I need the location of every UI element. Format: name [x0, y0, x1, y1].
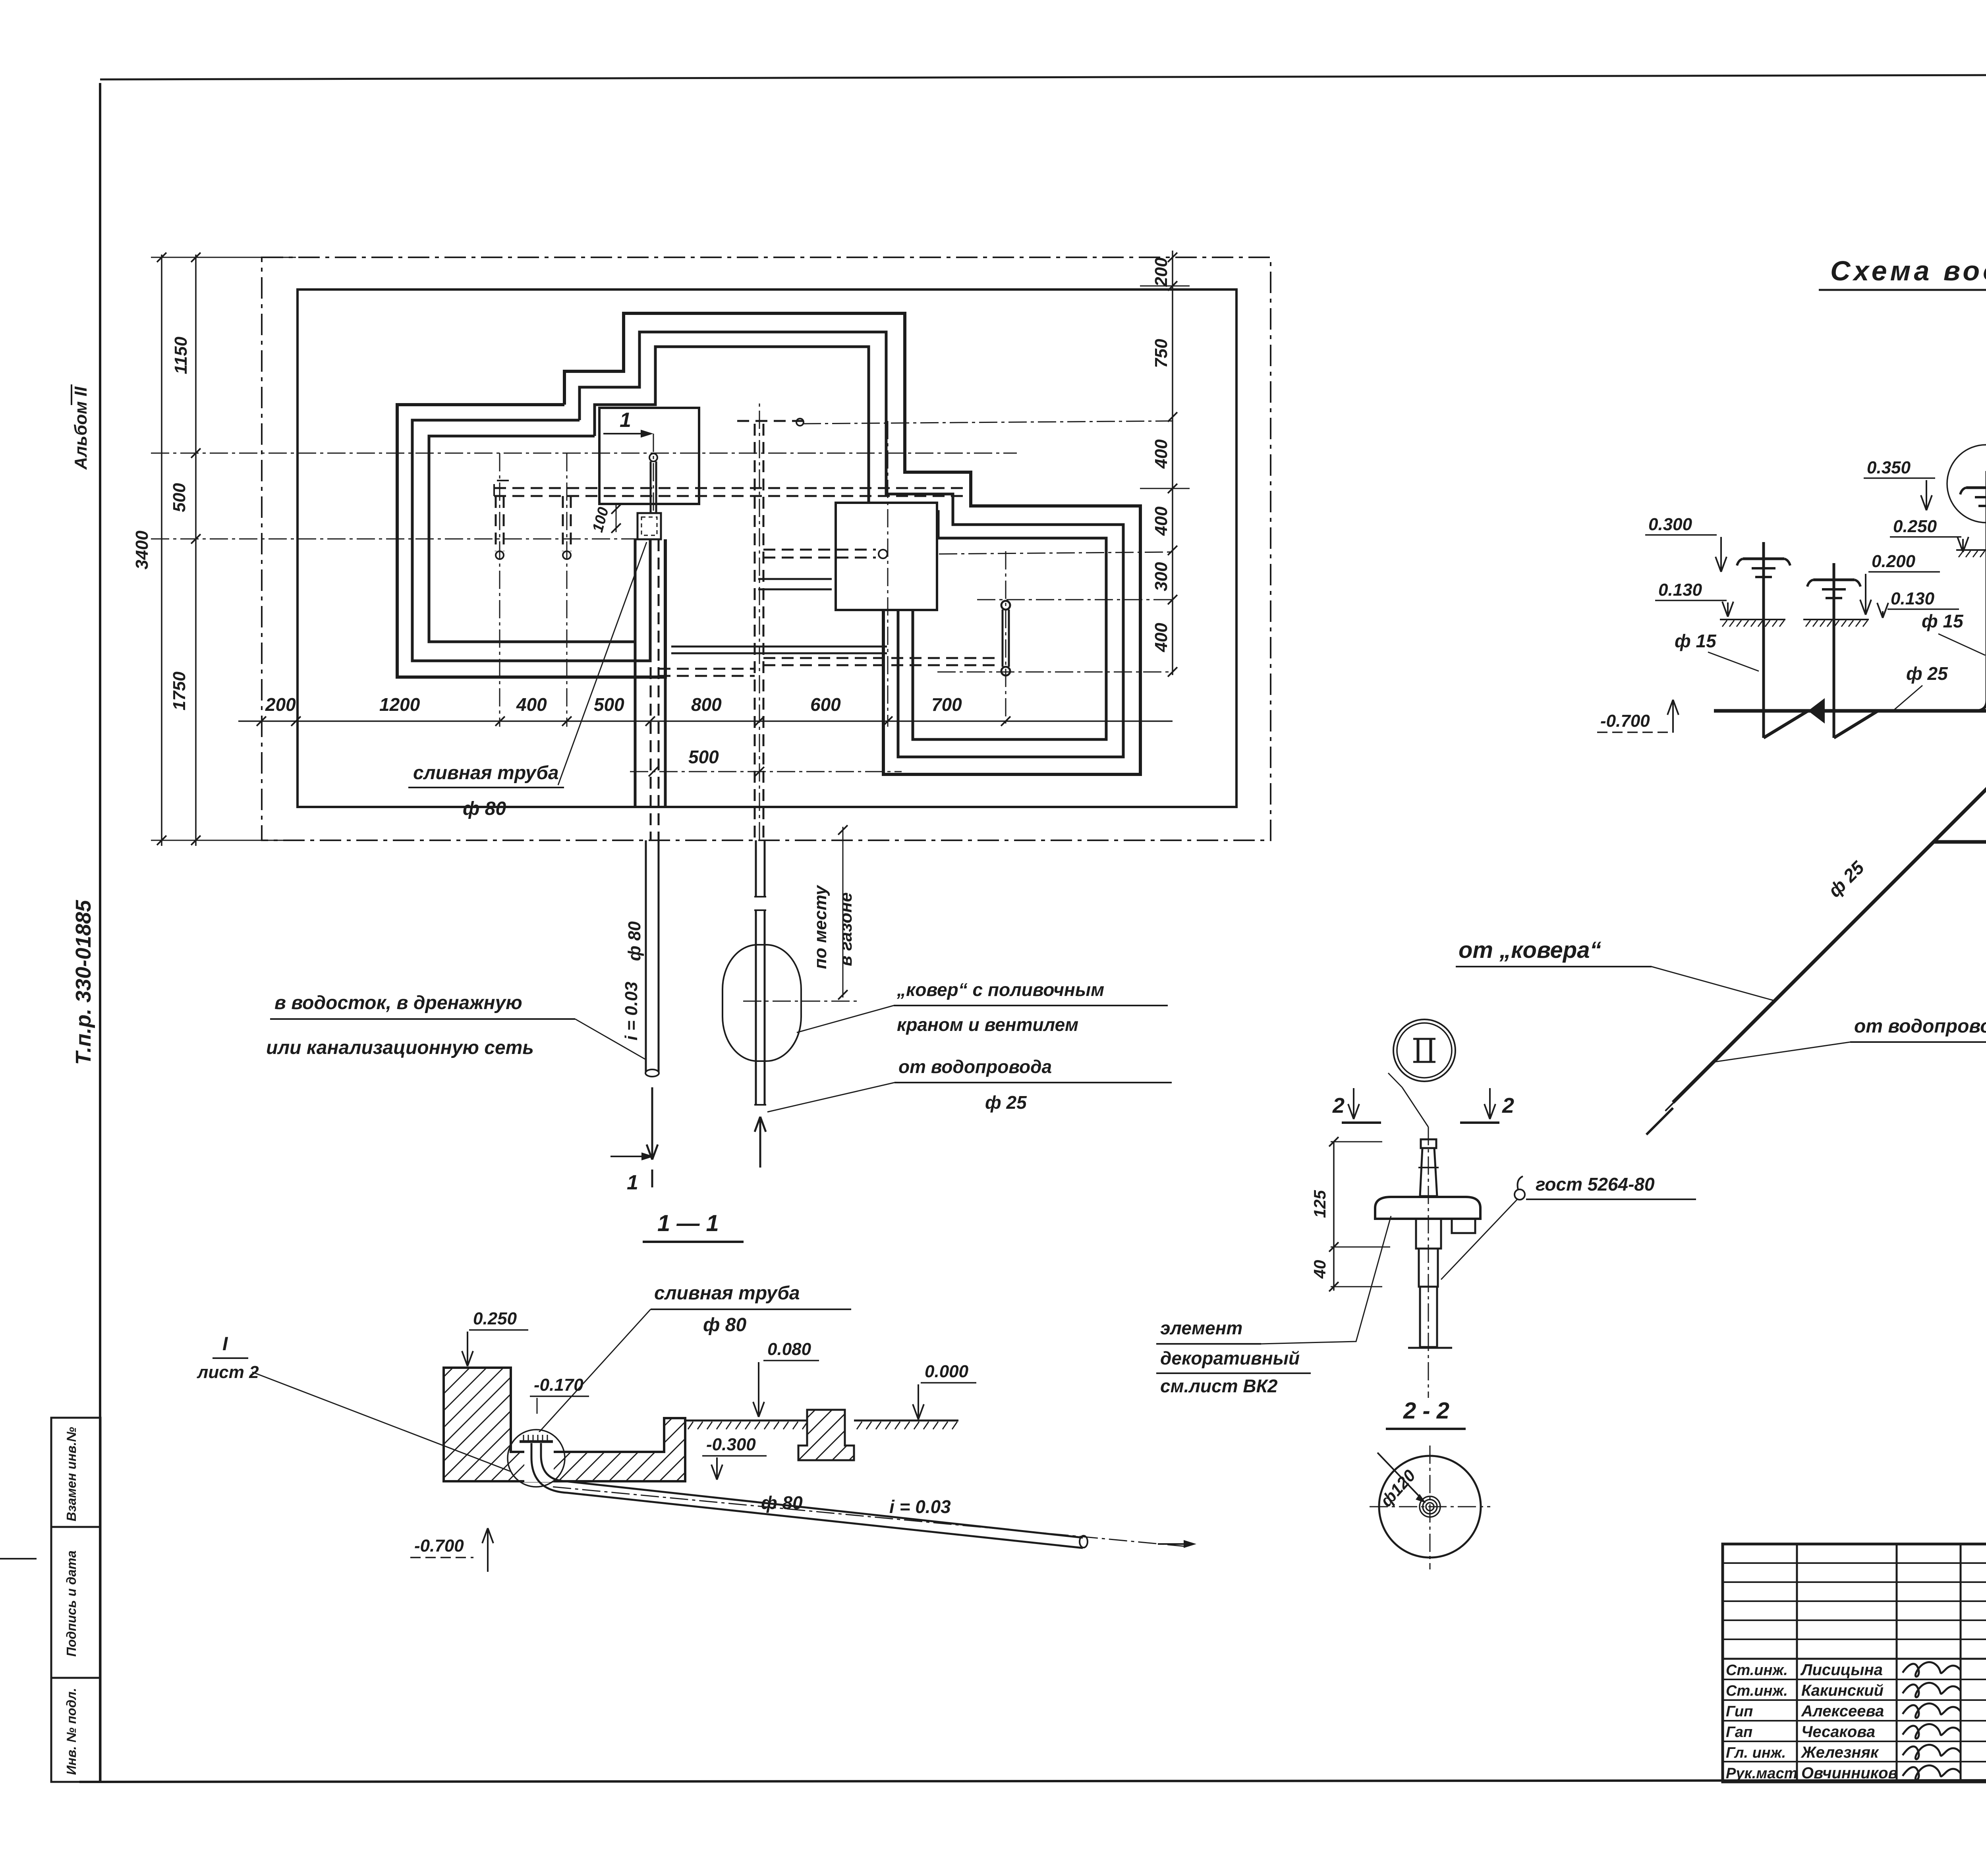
- svg-text:2 - 2: 2 - 2: [1403, 1398, 1449, 1424]
- svg-text:ф 15: ф 15: [1922, 611, 1964, 631]
- svg-text:сливная труба: сливная труба: [654, 1283, 800, 1304]
- svg-text:0.250: 0.250: [1893, 517, 1937, 536]
- svg-text:декоративный: декоративный: [1160, 1348, 1300, 1368]
- svg-text:ф 80: ф 80: [625, 921, 644, 961]
- svg-text:0.000: 0.000: [925, 1362, 969, 1381]
- svg-text:гост 5264-80: гост 5264-80: [1536, 1174, 1655, 1195]
- svg-text:0.300: 0.300: [1648, 515, 1692, 534]
- svg-text:0.200: 0.200: [1872, 552, 1916, 571]
- svg-text:-0.700: -0.700: [1600, 711, 1650, 731]
- svg-text:400: 400: [1151, 506, 1171, 536]
- svg-text:ф 25: ф 25: [985, 1092, 1027, 1113]
- svg-text:-0.170: -0.170: [534, 1375, 583, 1395]
- svg-text:по месту: по месту: [811, 884, 830, 969]
- svg-text:Схема водопровода: Схема водопровода: [1830, 255, 1986, 286]
- svg-text:400: 400: [1151, 439, 1171, 469]
- svg-text:3400: 3400: [132, 531, 152, 569]
- svg-text:от водопровода: от водопровода: [1854, 1016, 1986, 1037]
- svg-text:см.лист ВК2: см.лист ВК2: [1160, 1376, 1278, 1396]
- svg-text:Ст.инж.: Ст.инж.: [1726, 1662, 1788, 1679]
- svg-text:Железняк: Железняк: [1801, 1744, 1879, 1761]
- svg-text:1150: 1150: [171, 336, 191, 374]
- svg-text:600: 600: [810, 694, 841, 715]
- svg-text:i = 0.03: i = 0.03: [889, 1496, 951, 1517]
- svg-text:Альбом II: Альбом II: [71, 386, 91, 470]
- svg-text:0.130: 0.130: [1658, 580, 1702, 600]
- svg-text:1750: 1750: [170, 672, 189, 710]
- svg-text:Какинский: Какинский: [1801, 1682, 1884, 1699]
- svg-text:элемент: элемент: [1160, 1318, 1242, 1338]
- svg-text:Инв. № подл.: Инв. № подл.: [64, 1688, 79, 1775]
- svg-text:Взамен инв.№: Взамен инв.№: [64, 1427, 79, 1521]
- svg-text:i = 0.03: i = 0.03: [622, 982, 641, 1040]
- svg-text:800: 800: [691, 694, 722, 715]
- svg-text:0.130: 0.130: [1891, 589, 1935, 608]
- svg-text:Рук.маст: Рук.маст: [1726, 1765, 1797, 1782]
- svg-text:или канализационную сеть: или канализационную сеть: [266, 1037, 534, 1058]
- svg-text:2: 2: [1332, 1094, 1345, 1117]
- svg-text:ф 80: ф 80: [463, 798, 506, 819]
- svg-text:в водосток, в дренажную: в водосток, в дренажную: [274, 992, 522, 1013]
- svg-text:I: I: [222, 1334, 228, 1355]
- svg-text:-0.300: -0.300: [706, 1435, 756, 1454]
- svg-text:ф 25: ф 25: [1906, 663, 1948, 684]
- svg-text:200: 200: [265, 694, 296, 715]
- svg-text:400: 400: [516, 694, 547, 715]
- svg-text:1: 1: [627, 1171, 638, 1194]
- svg-text:Гл. инж.: Гл. инж.: [1726, 1745, 1786, 1761]
- svg-text:-0.700: -0.700: [414, 1536, 464, 1556]
- svg-text:Алексеева: Алексеева: [1801, 1702, 1884, 1720]
- svg-text:от „ковера“: от „ковера“: [1459, 937, 1601, 963]
- svg-text:0.350: 0.350: [1867, 458, 1911, 477]
- svg-text:2: 2: [1502, 1094, 1514, 1117]
- svg-text:1: 1: [620, 409, 631, 432]
- svg-text:в газоне: в газоне: [836, 892, 856, 966]
- svg-text:ф 15: ф 15: [1675, 631, 1717, 651]
- svg-text:200: 200: [1151, 257, 1171, 287]
- svg-text:1200: 1200: [379, 694, 420, 715]
- svg-text:краном и вентилем: краном и вентилем: [897, 1014, 1078, 1035]
- svg-text:Лисицына: Лисицына: [1800, 1661, 1883, 1679]
- svg-text:500: 500: [594, 694, 624, 715]
- svg-text:700: 700: [931, 694, 962, 715]
- svg-text:0.250: 0.250: [473, 1309, 517, 1328]
- svg-text:Подпись и дата: Подпись и дата: [64, 1550, 79, 1657]
- svg-text:Гип: Гип: [1726, 1703, 1753, 1720]
- svg-text:400: 400: [1151, 623, 1171, 652]
- svg-text:Гап: Гап: [1726, 1724, 1752, 1741]
- svg-text:сливная труба: сливная труба: [413, 762, 559, 784]
- svg-text:Т.п.р. 330-01885: Т.п.р. 330-01885: [71, 899, 95, 1065]
- svg-text:лист 2: лист 2: [197, 1363, 259, 1382]
- svg-text:40: 40: [1310, 1260, 1329, 1279]
- svg-text:Ст.инж.: Ст.инж.: [1726, 1683, 1788, 1699]
- svg-text:от водопровода: от водопровода: [898, 1056, 1052, 1077]
- svg-text:Овчинников: Овчинников: [1801, 1764, 1898, 1782]
- svg-text:0.080: 0.080: [767, 1339, 811, 1359]
- svg-text:ф 80: ф 80: [761, 1492, 803, 1513]
- svg-text:500: 500: [688, 747, 719, 767]
- svg-text:ф 80: ф 80: [703, 1314, 747, 1336]
- svg-text:500: 500: [170, 483, 189, 512]
- svg-text:125: 125: [1310, 1190, 1329, 1218]
- svg-text:1 — 1: 1 — 1: [657, 1210, 719, 1236]
- svg-text:750: 750: [1151, 339, 1171, 368]
- svg-text:Чесакова: Чесакова: [1801, 1723, 1875, 1741]
- svg-text:300: 300: [1151, 562, 1171, 591]
- svg-text:„ковер“ с поливочным: „ковер“ с поливочным: [896, 979, 1104, 1000]
